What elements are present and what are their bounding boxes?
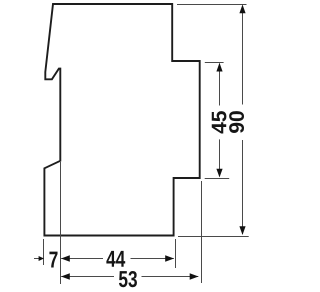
extension line bottom (90 dim, y=236) — [178, 236, 249, 238]
arrowhead 53 right — [190, 273, 199, 279]
extension line 44 right (x=175.4) — [175, 239, 177, 268]
dimension line 45 (vertical) — [219, 64, 221, 177]
arrowhead 53 left — [61, 273, 70, 279]
dimension line 90 (vertical) — [242, 6, 244, 235]
label 7 — [49, 252, 57, 268]
label 53 — [119, 271, 137, 287]
extension line step (45 dim top, y=62.5) — [205, 62, 224, 64]
label 45 (rotated) — [212, 111, 227, 133]
label 90 (rotated) — [229, 111, 244, 133]
label 44 — [106, 251, 125, 267]
arrowhead 90 bottom — [239, 226, 245, 235]
arrowhead 44 left — [61, 255, 70, 261]
dimension 7: outside arrow tail — [34, 258, 40, 260]
arrowhead 90 top — [239, 5, 245, 14]
extension line top (90 dim, y=4.5) — [177, 4, 247, 6]
arrowhead 44 right — [165, 255, 174, 261]
arrowhead 7 (points right) — [39, 256, 44, 261]
dimension line 44 (horizontal) — [61, 258, 174, 260]
extension line notch (x=60.3) — [60, 162, 62, 284]
extension line 53 right (x=201) — [201, 181, 203, 283]
dimension line 53 (horizontal) — [61, 276, 198, 278]
breaker side profile outline — [44, 4, 199, 236]
extension line step2 (45 dim bottom, y=178.5) — [205, 178, 230, 180]
arrowhead 45 bottom — [216, 169, 222, 178]
extension line left edge (x=43.8) — [43, 239, 45, 265]
arrowhead 45 top — [216, 63, 222, 72]
